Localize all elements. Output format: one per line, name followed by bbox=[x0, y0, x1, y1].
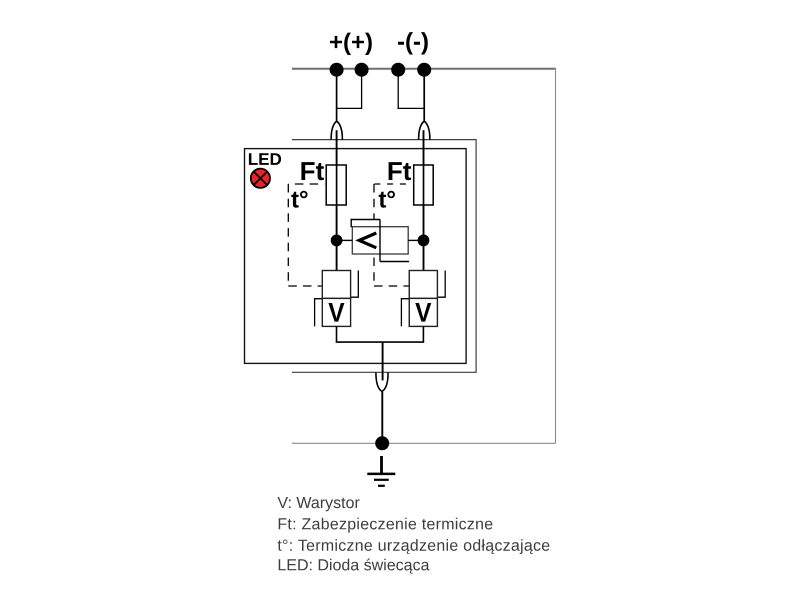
wire to ground node bbox=[381, 392, 383, 444]
plug-in disconnect arch bottom bbox=[376, 373, 388, 392]
wire bottom bus (gray) bbox=[292, 442, 556, 444]
wire left leg bbox=[336, 130, 338, 270]
label t-deg right bbox=[379, 191, 395, 208]
thermal disconnect upper box left shadow bbox=[351, 271, 359, 298]
legend line 4 bbox=[279, 559, 430, 574]
wire from dot2 down bbox=[361, 70, 363, 109]
wire junction to U1 left bbox=[337, 239, 353, 241]
varistor V2 shadow bbox=[401, 299, 409, 327]
node left junction bbox=[331, 235, 343, 247]
terminal dot 4 (-) bbox=[417, 63, 431, 77]
wire from dot3 down bbox=[397, 70, 399, 109]
thermal disconnect upper box right bbox=[409, 271, 437, 299]
wire from dot1 down bbox=[336, 70, 338, 122]
label V2 bbox=[415, 303, 431, 322]
wire jog plus pair bbox=[336, 107, 362, 109]
less-than symbol in U1 bbox=[359, 233, 376, 248]
terminal dot 1 (+) bbox=[330, 63, 344, 77]
wire jog minus pair bbox=[398, 107, 425, 109]
legend line 1 bbox=[278, 497, 360, 511]
wire top bus (gray) bbox=[292, 68, 556, 70]
label LED bbox=[249, 153, 281, 165]
wire right bus (gray) bbox=[555, 68, 557, 444]
wire center down bbox=[382, 342, 384, 380]
thermal fuse Ft left bbox=[326, 165, 346, 205]
thermal disconnect upper box right shadow bbox=[437, 271, 445, 298]
surge monitor box U1 back outline bbox=[351, 219, 409, 262]
label terminal -(-) bbox=[398, 32, 428, 54]
label V1 bbox=[328, 303, 344, 322]
node ground junction bbox=[375, 436, 389, 450]
varistor V2 box bbox=[409, 298, 437, 326]
terminal dot 2 (+) bbox=[355, 63, 369, 77]
wire V1 bottom bbox=[336, 326, 338, 342]
surge monitor box U1 (front) bbox=[352, 227, 408, 254]
ground symbol bbox=[367, 456, 395, 486]
label terminal +(+) bbox=[330, 33, 372, 55]
wire right leg bbox=[423, 130, 425, 270]
varistor V1 box bbox=[322, 298, 350, 326]
dashed thermal-disconnect box left bbox=[288, 184, 324, 286]
LED indicator lamp bbox=[251, 169, 270, 188]
varistor V1 shadow bbox=[315, 299, 323, 327]
outer enclosure box A bbox=[292, 140, 476, 373]
dashed thermal-disconnect box right bbox=[374, 184, 411, 286]
label Ft right bbox=[389, 162, 412, 180]
plug-in disconnect arch right bbox=[419, 121, 430, 139]
inner enclosure box B bbox=[245, 149, 467, 364]
legend line 3 bbox=[278, 539, 550, 554]
thermal fuse Ft right bbox=[414, 165, 434, 205]
wire V2 bottom bbox=[422, 326, 424, 342]
wire from dot4 down bbox=[423, 70, 425, 122]
wire bottom join bus bbox=[336, 341, 425, 343]
legend line 2 bbox=[279, 518, 493, 533]
label Ft left bbox=[301, 162, 324, 180]
thermal disconnect upper box left bbox=[322, 271, 350, 299]
node right junction bbox=[418, 235, 430, 247]
plug-in disconnect arch left bbox=[331, 121, 342, 139]
label t-deg left bbox=[291, 191, 307, 208]
terminal dot 3 (-) bbox=[391, 63, 405, 77]
wire U1 to junction right bbox=[408, 239, 423, 241]
